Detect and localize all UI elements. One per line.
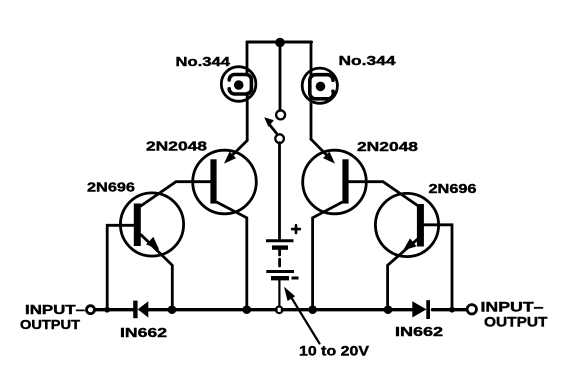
svg-text:INPUT–: INPUT– bbox=[25, 303, 85, 317]
transistor Q2 2N2048 left circle bbox=[193, 150, 257, 214]
svg-text:No.344: No.344 bbox=[176, 54, 231, 69]
wire Q3 base to Q4 collector bbox=[349, 182, 419, 207]
svg-text:OUTPUT: OUTPUT bbox=[484, 315, 548, 330]
node Q4 emitter rail bbox=[384, 305, 393, 314]
node Q4 base rail tee bbox=[449, 307, 455, 313]
wire right lamp drop bbox=[310, 42, 313, 76]
transistor Q1 base bar bbox=[134, 204, 141, 247]
svg-text:2N696: 2N696 bbox=[429, 181, 477, 196]
lamp DS2 No.344 right bbox=[302, 68, 337, 103]
svg-text:2N696: 2N696 bbox=[87, 180, 135, 195]
wire Q1 emitter bbox=[141, 235, 172, 310]
arrow Q2 emitter bbox=[224, 152, 236, 164]
terminal left input-output bbox=[87, 306, 95, 314]
label battery plus bbox=[292, 225, 300, 233]
svg-text:IN662: IN662 bbox=[395, 325, 443, 339]
wire bottom rail right bbox=[433, 308, 467, 311]
node Q2 collector rail bbox=[243, 305, 252, 314]
diode CR2 IN662 triangle bbox=[412, 301, 426, 317]
label battery minus bbox=[292, 277, 299, 280]
arrow Q1 emitter bbox=[146, 237, 159, 250]
wire Q3 collector bbox=[313, 202, 342, 309]
wire pointer 10 to 20V bbox=[291, 297, 320, 344]
arrow Q4 emitter bbox=[403, 238, 417, 250]
transistor Q4 2N696 right circle bbox=[375, 193, 438, 256]
diode CR1 IN662 bar bbox=[133, 301, 137, 319]
svg-text:No.344: No.344 bbox=[339, 53, 397, 68]
svg-text:10 to 20V: 10 to 20V bbox=[299, 343, 370, 359]
wire right lamp to Q3 emitter bbox=[310, 98, 313, 139]
diode CR2 IN662 bar bbox=[426, 300, 430, 319]
wire bottom rail left bbox=[95, 308, 134, 311]
wire top dot to switch bbox=[279, 44, 282, 110]
wire Q4 emitter bbox=[388, 235, 423, 310]
wire left lamp drop bbox=[246, 42, 249, 75]
transistor Q4 base bar bbox=[417, 204, 424, 247]
svg-text:2N2048: 2N2048 bbox=[357, 139, 418, 154]
wire Q2 emitter bbox=[230, 141, 247, 158]
wire Q4 base lead bbox=[424, 225, 452, 310]
battery BT1 bbox=[266, 241, 294, 307]
transistor Q1 2N696 left circle bbox=[120, 193, 183, 256]
wire left lamp to Q2 emitter bbox=[246, 93, 249, 141]
terminal right input-output bbox=[467, 305, 476, 314]
wire bottom rail center bbox=[148, 308, 276, 311]
svg-text:2N2048: 2N2048 bbox=[146, 139, 207, 154]
wire Q3 emitter bbox=[311, 139, 329, 157]
node Q3 collector rail bbox=[308, 305, 317, 314]
arrow Q3 emitter bbox=[323, 152, 335, 164]
svg-text:IN662: IN662 bbox=[120, 326, 167, 340]
transistor Q3 2N2048 right circle bbox=[303, 150, 367, 214]
wire Q1 base lead bbox=[107, 225, 134, 309]
wire Q1 collector to Q2 base bbox=[140, 182, 210, 207]
switch S1 bbox=[264, 110, 285, 143]
wire Q2 collector bbox=[217, 202, 247, 309]
transistor Q2 base bar bbox=[210, 159, 216, 203]
svg-text:OUTPUT: OUTPUT bbox=[20, 318, 80, 332]
lamp DS1 No.344 left bbox=[221, 67, 256, 102]
diode CR1 IN662 triangle bbox=[138, 301, 149, 317]
node Q1 emitter rail bbox=[168, 305, 177, 314]
wire switch to battery bbox=[278, 143, 281, 239]
node Q1 base rail tee bbox=[104, 307, 110, 313]
node top junction bbox=[275, 38, 285, 48]
svg-text:INPUT–: INPUT– bbox=[481, 300, 545, 315]
transistor Q3 base bar bbox=[342, 159, 348, 203]
wire top rail bbox=[247, 41, 312, 44]
node battery rail terminal bbox=[276, 307, 283, 314]
